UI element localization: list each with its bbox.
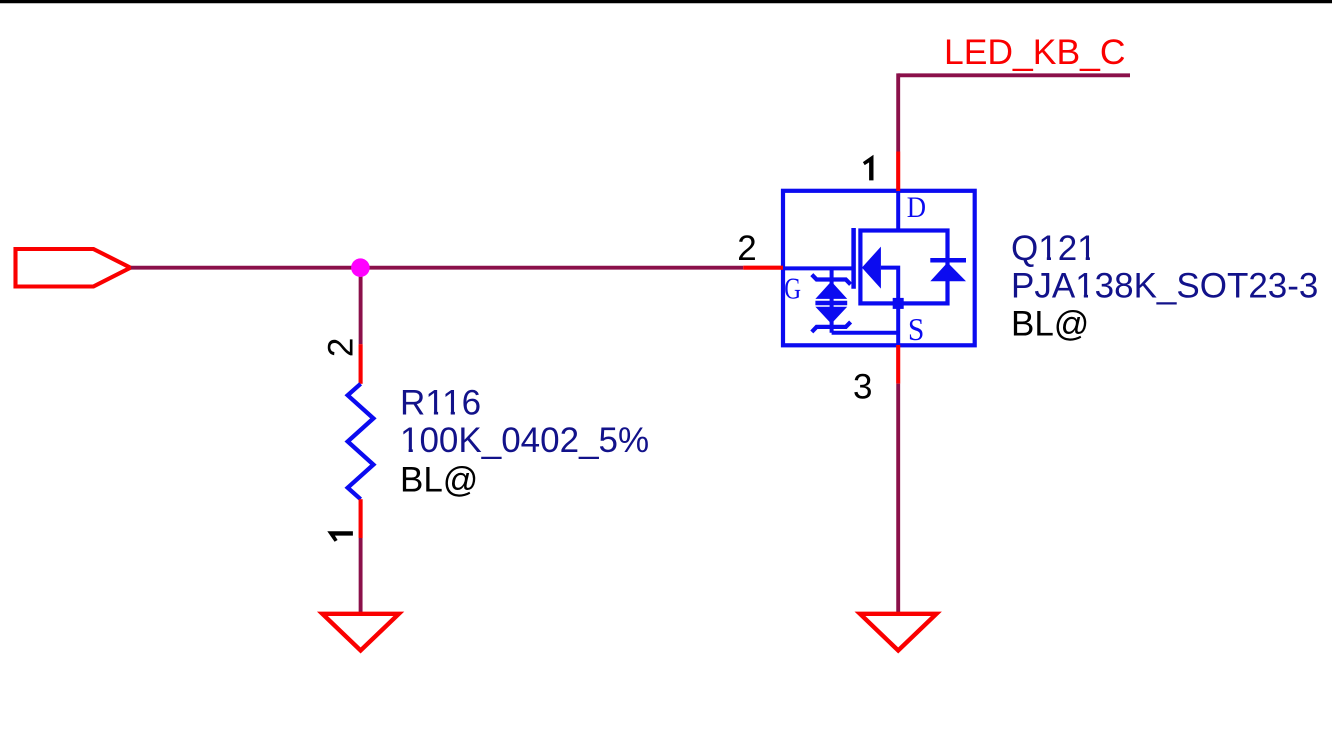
svg-text:LED_KB_C: LED_KB_C xyxy=(944,32,1126,72)
zener top bar xyxy=(812,275,851,285)
pin number 1 (resistor, rotated) xyxy=(327,531,353,542)
zener bottom triangle xyxy=(815,307,847,324)
pin 3 stub (source) xyxy=(896,345,900,384)
pin 2 stub (gate) xyxy=(743,266,783,270)
resistor pin 1 stub xyxy=(359,499,363,538)
source junction square xyxy=(893,298,904,309)
svg-text:3: 3 xyxy=(853,368,872,407)
zener bottom bar xyxy=(812,322,851,332)
gate lead xyxy=(783,266,852,270)
svg-text:S: S xyxy=(908,312,924,347)
pin number 1 xyxy=(863,155,874,181)
wire main horizontal xyxy=(131,266,743,270)
resistor pin 2 stub xyxy=(359,344,363,384)
ground symbol right xyxy=(860,614,936,651)
wire resistor to ground xyxy=(359,538,363,614)
svg-text:2: 2 xyxy=(321,338,360,357)
digit-1 serif trim patches xyxy=(1040,256,1047,260)
ground symbol left xyxy=(322,614,398,651)
zener bottom lead to source xyxy=(832,331,899,335)
svg-text:D: D xyxy=(907,192,926,225)
svg-text:R116: R116 xyxy=(400,384,481,423)
zener center lead xyxy=(830,268,834,332)
drain lead inside box xyxy=(896,191,900,231)
svg-text:BL@: BL@ xyxy=(400,460,478,499)
source lead inside xyxy=(881,268,898,304)
svg-text:2: 2 xyxy=(737,229,756,268)
body diode triangle xyxy=(930,263,966,282)
mosfet arrow xyxy=(862,247,881,289)
junction dot xyxy=(351,258,370,277)
zener top triangle xyxy=(815,281,847,299)
wire source to ground xyxy=(896,384,900,614)
wire junction down xyxy=(359,268,363,345)
inner rect (mosfet cell) xyxy=(860,231,947,304)
pin 1 stub (drain) xyxy=(896,152,900,192)
gate bar xyxy=(851,228,856,289)
resistor R116 zigzag xyxy=(348,384,374,499)
svg-text:100K_0402_5%: 100K_0402_5% xyxy=(400,421,649,460)
zener middle bar xyxy=(815,301,847,306)
svg-text:G: G xyxy=(784,271,801,305)
top border line xyxy=(0,0,1332,3)
off-page connector flag xyxy=(16,249,131,287)
transistor Q1 outer box xyxy=(783,191,975,345)
svg-text:PJA138K_SOT23-3: PJA138K_SOT23-3 xyxy=(1011,267,1318,306)
svg-text:Q121: Q121 xyxy=(1011,229,1097,268)
svg-text:BL@: BL@ xyxy=(1011,305,1089,344)
source lead to box edge xyxy=(896,303,900,345)
body diode cathode bar xyxy=(930,258,966,263)
wire net LED_KB_C horizontal xyxy=(898,73,1130,77)
wire drain vertical xyxy=(896,73,900,151)
